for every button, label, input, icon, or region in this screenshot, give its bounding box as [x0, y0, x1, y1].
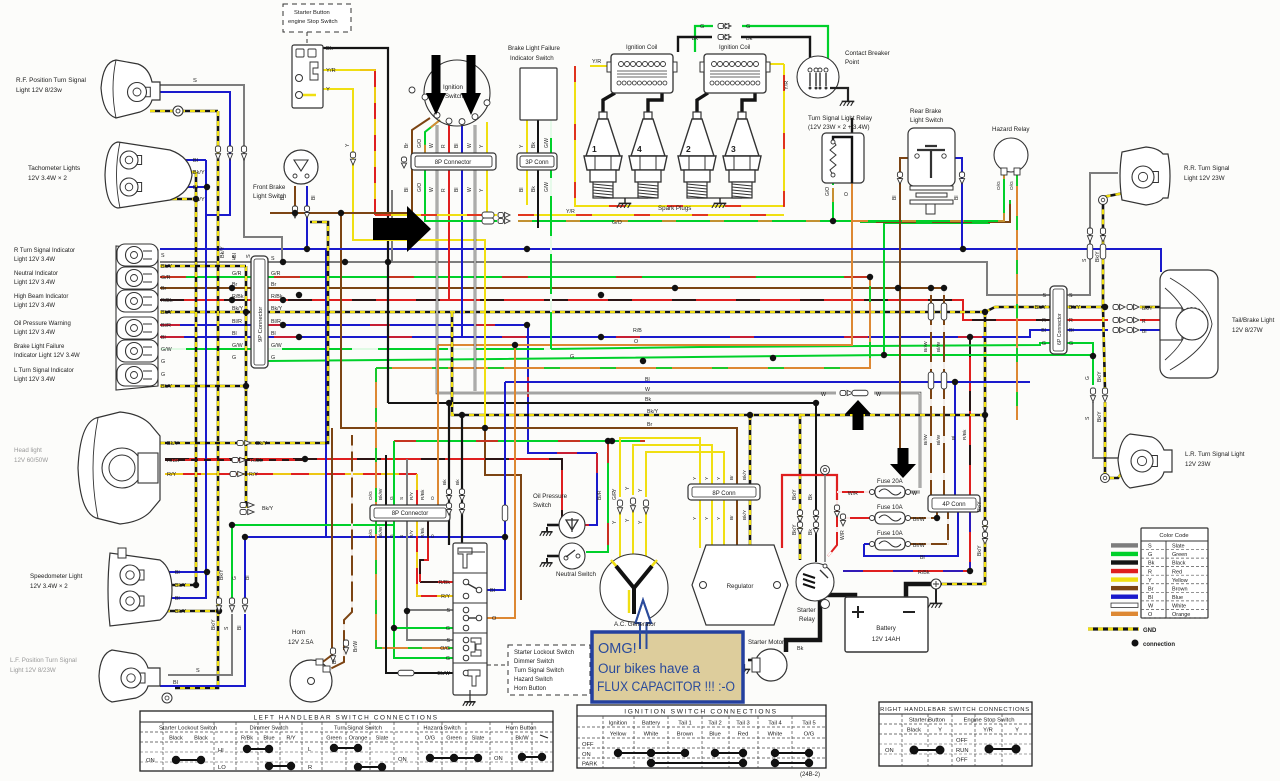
svg-text:LO: LO [218, 765, 226, 771]
svg-text:HI: HI [218, 748, 224, 754]
svg-text:Bk: Bk [808, 529, 814, 535]
svg-text:Red: Red [738, 732, 749, 738]
svg-text:G/O: G/O [612, 220, 622, 226]
svg-text:R/Y: R/Y [167, 472, 177, 478]
svg-text:L.R. Turn Signal Light: L.R. Turn Signal Light [1185, 451, 1245, 458]
svg-text:Starter Lockout Switch: Starter Lockout Switch [159, 726, 217, 732]
svg-text:G: G [446, 656, 450, 662]
svg-text:Bl: Bl [1041, 328, 1046, 334]
svg-text:Rear Brake: Rear Brake [910, 108, 942, 115]
svg-text:Br: Br [332, 659, 338, 664]
svg-text:Br/W: Br/W [913, 517, 925, 523]
svg-text:OFF: OFF [956, 758, 968, 764]
svg-text:Bl/R: Bl/R [271, 319, 281, 325]
svg-text:Br/W: Br/W [913, 543, 925, 549]
svg-text:Speedometer Light: Speedometer Light [30, 573, 83, 580]
svg-text:12V 8/27W: 12V 8/27W [1232, 327, 1263, 334]
svg-text:Bk: Bk [1148, 561, 1155, 567]
svg-text:Bl/R: Bl/R [232, 319, 242, 325]
svg-text:Bl: Bl [161, 335, 166, 341]
svg-text:Bk/Y: Bk/Y [232, 306, 244, 312]
svg-text:G/W: G/W [544, 182, 550, 192]
svg-text:G: G [446, 626, 450, 632]
svg-text:Brake Light Failure: Brake Light Failure [14, 344, 65, 350]
svg-text:Y/R: Y/R [784, 81, 790, 90]
svg-text:Bl/W: Bl/W [936, 434, 942, 445]
svg-text:Y/R: Y/R [566, 209, 575, 215]
svg-text:R/Bk: R/Bk [420, 489, 426, 500]
svg-text:Bl: Bl [232, 331, 237, 337]
svg-text:Tachometer Lights: Tachometer Lights [28, 165, 80, 172]
svg-text:Bk/Y: Bk/Y [647, 409, 659, 415]
svg-text:Dimmer Switch: Dimmer Switch [250, 726, 289, 732]
svg-text:Battery: Battery [876, 625, 897, 632]
svg-text:Bk/Y: Bk/Y [742, 469, 748, 480]
svg-text:Bk: Bk [455, 479, 461, 485]
svg-text:Contact Breaker: Contact Breaker [845, 50, 890, 57]
svg-text:connection: connection [1143, 642, 1175, 648]
svg-text:Head light: Head light [14, 447, 42, 454]
svg-text:Brown: Brown [677, 732, 693, 738]
svg-text:1: 1 [592, 144, 597, 154]
svg-text:Neutral Indicator: Neutral Indicator [14, 271, 58, 277]
svg-text:Bk: Bk [531, 142, 537, 148]
svg-text:G/W: G/W [161, 347, 172, 353]
svg-text:R/Y: R/Y [441, 594, 450, 600]
svg-text:RIGHT HANDLEBAR SWITCH CONNECT: RIGHT HANDLEBAR SWITCH CONNECTIONS [880, 707, 1030, 713]
svg-text:O/G: O/G [804, 732, 815, 738]
svg-text:Bk/Y: Bk/Y [193, 170, 205, 176]
svg-text:Bl: Bl [645, 377, 650, 383]
svg-text:8P Connector: 8P Connector [435, 160, 472, 166]
svg-text:Orange: Orange [1172, 612, 1190, 618]
svg-text:Indicator Light 12V 3.4W: Indicator Light 12V 3.4W [14, 353, 80, 359]
svg-text:High Beam Indicator: High Beam Indicator [14, 294, 68, 300]
svg-text:Green: Green [446, 736, 462, 742]
svg-text:12V 3.4W × 2: 12V 3.4W × 2 [28, 175, 67, 182]
svg-text:9P Connector: 9P Connector [258, 307, 264, 342]
svg-text:Y: Y [1015, 728, 1019, 734]
svg-text:Horn Button: Horn Button [514, 686, 546, 692]
svg-text:Dimmer Switch: Dimmer Switch [514, 659, 554, 665]
svg-text:R/Y: R/Y [409, 491, 415, 500]
svg-text:Br: Br [161, 286, 167, 292]
svg-text:Y/R: Y/R [983, 728, 993, 734]
svg-text:Brake Light Failure: Brake Light Failure [508, 45, 560, 52]
svg-text:O/G: O/G [996, 181, 1002, 190]
svg-text:OFF: OFF [582, 742, 594, 748]
svg-text:Bk/Y: Bk/Y [193, 197, 205, 203]
svg-text:Bl: Bl [175, 596, 180, 602]
svg-text:Bk: Bk [442, 479, 448, 485]
svg-text:Br/W: Br/W [923, 341, 929, 352]
svg-text:Turn Signal Light Relay: Turn Signal Light Relay [808, 115, 873, 122]
svg-text:W: W [912, 491, 917, 497]
svg-text:Bk/Y: Bk/Y [792, 524, 798, 535]
svg-text:Y/R: Y/R [326, 68, 336, 74]
svg-text:S: S [1069, 293, 1073, 299]
svg-text:R/Y: R/Y [409, 529, 415, 538]
svg-text:Yellow: Yellow [1172, 578, 1188, 584]
svg-text:W: W [1148, 603, 1154, 609]
svg-text:OMG!: OMG! [598, 641, 637, 657]
svg-text:Blue: Blue [709, 732, 721, 738]
svg-text:Y/R: Y/R [592, 59, 601, 65]
svg-text:Bl: Bl [311, 196, 317, 200]
svg-text:OFF: OFF [956, 738, 968, 744]
svg-text:R: R [308, 765, 312, 771]
svg-text:S: S [271, 256, 275, 262]
svg-text:Bl/R: Bl/R [161, 323, 171, 329]
svg-text:Bk: Bk [326, 46, 333, 52]
svg-text:Bk/Y: Bk/Y [262, 506, 274, 512]
svg-text:Blue: Blue [1172, 595, 1183, 601]
svg-text:Bk: Bk [797, 646, 804, 652]
svg-text:Brown: Brown [1172, 586, 1188, 592]
svg-text:Bl: Bl [173, 680, 178, 686]
svg-text:12V 2.5A: 12V 2.5A [288, 639, 314, 646]
svg-text:3P Conn: 3P Conn [525, 160, 548, 166]
svg-text:Color Code: Color Code [1159, 533, 1188, 539]
svg-text:12V 23W: 12V 23W [1185, 461, 1211, 468]
svg-text:Bk/Y: Bk/Y [792, 489, 798, 500]
svg-text:Starter Lockout Switch: Starter Lockout Switch [514, 650, 574, 656]
svg-text:Br: Br [280, 195, 286, 200]
svg-text:Br/W: Br/W [353, 641, 359, 652]
svg-text:Light 12V 3.4W: Light 12V 3.4W [14, 280, 55, 286]
svg-text:Bk/Y: Bk/Y [220, 246, 226, 258]
svg-text:Bk/Y: Bk/Y [1142, 306, 1153, 312]
svg-text:G/W: G/W [544, 138, 550, 148]
svg-text:G: G [1148, 552, 1152, 558]
svg-text:GND: GND [1143, 628, 1157, 634]
svg-text:S: S [161, 253, 165, 259]
svg-text:Y: Y [326, 87, 330, 93]
svg-text:S: S [399, 497, 405, 500]
svg-text:Starter Motor: Starter Motor [748, 639, 784, 646]
svg-text:Bk/Y: Bk/Y [211, 619, 217, 630]
svg-text:Tail 3: Tail 3 [736, 721, 750, 727]
svg-text:O/G: O/G [1009, 181, 1015, 190]
svg-text:Starter: Starter [797, 607, 816, 614]
svg-text:G/R: G/R [232, 271, 242, 277]
svg-text:Bk/Y: Bk/Y [175, 609, 187, 615]
svg-text:Bl: Bl [920, 555, 925, 561]
svg-text:FLUX CAPACITOR !!! :-O: FLUX CAPACITOR !!! :-O [597, 679, 735, 694]
svg-text:Engine Stop Switch: Engine Stop Switch [963, 718, 1014, 724]
svg-text:W: W [429, 143, 435, 148]
svg-text:3: 3 [731, 144, 736, 154]
svg-text:O: O [844, 192, 850, 196]
svg-text:O: O [1148, 612, 1153, 618]
svg-text:W/R: W/R [840, 530, 846, 540]
svg-text:R/Bk: R/Bk [161, 298, 173, 304]
svg-text:R/Bk: R/Bk [271, 294, 283, 300]
svg-text:Bl: Bl [237, 626, 243, 630]
svg-text:S: S [196, 668, 200, 674]
svg-text:R/Bk: R/Bk [241, 736, 253, 742]
svg-text:Br: Br [647, 422, 653, 428]
svg-text:Slate: Slate [472, 736, 485, 742]
svg-text:Bk/Y: Bk/Y [1097, 411, 1103, 422]
svg-text:Br: Br [729, 515, 735, 520]
svg-text:S: S [399, 535, 405, 538]
svg-text:Fuse 20A: Fuse 20A [877, 479, 903, 485]
svg-text:White: White [1172, 603, 1186, 609]
svg-text:Bk/Y: Bk/Y [1035, 305, 1047, 311]
svg-text:W: W [821, 392, 826, 398]
svg-text:Tail 5: Tail 5 [802, 721, 816, 727]
svg-text:W: W [429, 187, 435, 192]
svg-text:Hazard Relay: Hazard Relay [992, 126, 1030, 133]
svg-text:Light Switch: Light Switch [910, 117, 944, 124]
svg-text:Bl: Bl [175, 570, 180, 576]
svg-text:R Turn Signal Indicator: R Turn Signal Indicator [14, 248, 75, 254]
svg-text:Ignition Coil: Ignition Coil [719, 45, 750, 51]
svg-text:R/Bk: R/Bk [232, 294, 244, 300]
svg-text:Light 12V 8/23w: Light 12V 8/23w [16, 87, 62, 94]
svg-text:G/R: G/R [161, 275, 171, 281]
svg-text:Green: Green [1172, 552, 1187, 558]
svg-text:Bk/Y: Bk/Y [977, 545, 983, 556]
svg-text:Bl: Bl [193, 158, 198, 164]
svg-text:Indicator Switch: Indicator Switch [510, 55, 554, 62]
svg-text:Regulator: Regulator [727, 583, 754, 590]
svg-text:L Turn Signal Indicator: L Turn Signal Indicator [14, 368, 74, 374]
svg-text:O: O [634, 339, 638, 345]
svg-text:2: 2 [686, 144, 691, 154]
svg-text:Bl: Bl [1148, 595, 1153, 601]
svg-text:Bl/W: Bl/W [936, 341, 942, 352]
svg-text:Light 12V 3.4W: Light 12V 3.4W [14, 330, 55, 336]
svg-text:W/R: W/R [848, 491, 858, 497]
svg-text:LEFT HANDLEBAR SWITCH CONNECTI: LEFT HANDLEBAR SWITCH CONNECTIONS [253, 715, 438, 722]
svg-text:Black: Black [907, 728, 921, 734]
svg-text:W: W [876, 392, 881, 398]
svg-text:IGNITION SWITCH CONNECTIONS: IGNITION SWITCH CONNECTIONS [624, 709, 778, 716]
svg-text:6P Connector: 6P Connector [1057, 313, 1063, 345]
svg-text:O/G: O/G [368, 491, 374, 500]
svg-text:ON: ON [494, 756, 503, 762]
svg-text:Bk/W: Bk/W [378, 526, 384, 538]
svg-text:Bk: Bk [645, 397, 652, 403]
svg-text:R/Bk: R/Bk [918, 570, 930, 576]
svg-text:Tail 4: Tail 4 [768, 721, 782, 727]
svg-text:S: S [193, 78, 197, 84]
svg-text:R: R [441, 188, 447, 192]
svg-text:Fuse 10A: Fuse 10A [877, 531, 903, 537]
svg-text:Bl: Bl [1069, 328, 1074, 334]
svg-text:R: R [1148, 569, 1152, 575]
svg-text:(24B-2): (24B-2) [800, 772, 820, 778]
svg-text:O/G: O/G [425, 736, 435, 742]
svg-text:G/W: G/W [232, 343, 243, 349]
svg-text:Point: Point [845, 59, 859, 66]
svg-text:Bk/Y: Bk/Y [1097, 371, 1103, 382]
svg-text:G: G [161, 372, 165, 378]
svg-text:PARK: PARK [582, 762, 597, 768]
svg-text:(12V 23W × 2 + 3.4W): (12V 23W × 2 + 3.4W) [808, 124, 870, 131]
svg-text:Light 12V 3.4W: Light 12V 3.4W [14, 303, 55, 309]
svg-text:ON: ON [398, 757, 407, 763]
svg-text:4P Conn: 4P Conn [942, 502, 965, 508]
svg-text:Bk: Bk [808, 494, 814, 500]
svg-text:Hazard Switch: Hazard Switch [514, 677, 553, 683]
svg-text:G/R: G/R [271, 271, 281, 277]
svg-text:Bl: Bl [519, 188, 525, 192]
svg-text:Black: Black [169, 736, 183, 742]
svg-text:R/Bk: R/Bk [962, 429, 968, 440]
svg-text:Orange: Orange [349, 736, 368, 742]
svg-text:Hazard Switch: Hazard Switch [423, 726, 460, 732]
svg-text:S: S [232, 256, 236, 262]
svg-text:R/Bk: R/Bk [167, 458, 179, 464]
svg-text:R/Bk: R/Bk [251, 458, 263, 464]
svg-text:W: W [467, 143, 473, 148]
svg-text:G: G [271, 355, 275, 361]
svg-text:Light 12V 3.4W: Light 12V 3.4W [14, 377, 55, 383]
svg-text:8P Connector: 8P Connector [392, 511, 429, 517]
svg-text:Horn: Horn [292, 629, 306, 636]
svg-text:Bl: Bl [404, 188, 410, 192]
svg-text:G: G [389, 496, 395, 500]
svg-text:Black: Black [1172, 561, 1186, 567]
svg-text:Battery: Battery [642, 721, 660, 727]
svg-text:G: G [232, 355, 236, 361]
svg-text:Bl: Bl [454, 188, 460, 192]
svg-text:Oil Pressure Warning: Oil Pressure Warning [14, 321, 71, 327]
svg-text:S: S [246, 254, 252, 258]
svg-text:Br: Br [232, 282, 238, 288]
svg-text:G: G [746, 24, 750, 30]
svg-text:Relay: Relay [799, 616, 816, 623]
svg-text:Starter Button: Starter Button [294, 10, 330, 16]
svg-text:Front Brake: Front Brake [253, 184, 286, 191]
svg-text:4: 4 [637, 144, 642, 154]
svg-text:12V 3.4W × 2: 12V 3.4W × 2 [30, 583, 68, 590]
svg-text:Blue: Blue [263, 736, 274, 742]
svg-text:Bk/Y: Bk/Y [219, 569, 225, 580]
svg-text:Bk/Y: Bk/Y [161, 384, 173, 390]
svg-text:Switch: Switch [445, 93, 464, 100]
svg-text:Bk/Y: Bk/Y [977, 501, 983, 512]
svg-text:G/W: G/W [271, 343, 282, 349]
svg-text:Bk/Y: Bk/Y [175, 583, 187, 589]
svg-text:G: G [1042, 341, 1046, 347]
svg-text:Bk/Y: Bk/Y [256, 441, 268, 447]
svg-text:Bk/Y: Bk/Y [1095, 251, 1101, 262]
svg-text:Bk/Y: Bk/Y [1069, 305, 1081, 311]
svg-text:Bk/Y: Bk/Y [161, 310, 173, 316]
svg-text:R/Y: R/Y [286, 736, 296, 742]
svg-text:Slate: Slate [376, 736, 389, 742]
svg-text:Bk/Y: Bk/Y [167, 441, 179, 447]
svg-text:O/G: O/G [440, 646, 450, 652]
svg-text:O: O [430, 534, 436, 538]
svg-text:Bk/Y: Bk/Y [742, 509, 748, 520]
svg-text:White: White [768, 732, 783, 738]
svg-text:Spark Plugs: Spark Plugs [658, 205, 691, 212]
svg-text:Br: Br [1148, 586, 1154, 592]
svg-text:ON: ON [582, 752, 591, 758]
svg-text:R.F. Position Turn Signal: R.F. Position Turn Signal [16, 77, 86, 84]
svg-text:Tail 2: Tail 2 [708, 721, 722, 727]
svg-text:ON: ON [146, 758, 155, 764]
svg-text:R: R [1069, 318, 1073, 324]
svg-text:R: R [441, 144, 447, 148]
svg-text:Yellow: Yellow [610, 732, 627, 738]
svg-text:Y: Y [1148, 578, 1152, 584]
svg-text:W: W [645, 387, 650, 393]
svg-text:Light 12V 23W: Light 12V 23W [1184, 175, 1225, 182]
svg-text:RUN: RUN [956, 748, 969, 754]
svg-text:R/Bk: R/Bk [439, 580, 451, 586]
svg-text:Y: Y [938, 728, 942, 734]
svg-text:Light 12V 3.4W: Light 12V 3.4W [14, 257, 55, 263]
svg-text:Tail 1: Tail 1 [678, 721, 692, 727]
svg-text:Bl: Bl [951, 436, 957, 440]
svg-text:Bl: Bl [954, 196, 960, 200]
svg-text:Switch: Switch [533, 502, 552, 509]
svg-text:Bk: Bk [531, 186, 537, 192]
svg-text:Br: Br [404, 143, 410, 148]
svg-text:Bk/W: Bk/W [378, 488, 384, 500]
svg-text:Neutral Switch: Neutral Switch [556, 571, 596, 578]
svg-text:Black: Black [194, 736, 208, 742]
svg-text:Bl: Bl [454, 144, 460, 148]
svg-text:R.R. Turn Signal: R.R. Turn Signal [1184, 165, 1229, 172]
svg-text:Our bikes have a: Our bikes have a [598, 661, 701, 676]
svg-text:Turn Signal Switch: Turn Signal Switch [514, 668, 564, 674]
svg-text:12V 14AH: 12V 14AH [872, 636, 900, 643]
svg-text:G: G [232, 576, 238, 580]
svg-text:ON: ON [885, 748, 894, 754]
svg-text:engine Stop Switch: engine Stop Switch [288, 19, 338, 25]
svg-text:G: G [1069, 341, 1073, 347]
svg-text:S: S [1148, 544, 1152, 550]
svg-text:G/O: G/O [825, 187, 831, 196]
svg-text:Starter Button: Starter Button [909, 718, 945, 724]
svg-text:R/Y: R/Y [249, 472, 258, 478]
svg-text:L.F. Position Turn Signal: L.F. Position Turn Signal [10, 657, 77, 664]
svg-text:Oil Pressure: Oil Pressure [533, 493, 568, 500]
svg-text:Ignition Coil: Ignition Coil [626, 45, 657, 51]
svg-text:Bl: Bl [245, 576, 251, 580]
svg-text:12V 60/50W: 12V 60/50W [14, 457, 48, 464]
svg-text:Horn Button: Horn Button [506, 726, 537, 732]
svg-text:W: W [467, 187, 473, 192]
svg-text:O: O [430, 496, 436, 500]
svg-text:8P Conn: 8P Conn [712, 491, 735, 497]
svg-text:G: G [389, 534, 395, 538]
svg-text:Tail/Brake Light: Tail/Brake Light [1232, 317, 1275, 324]
svg-text:R: R [1142, 319, 1146, 325]
svg-text:Bl: Bl [1142, 329, 1146, 335]
svg-text:Ignition: Ignition [609, 721, 628, 727]
svg-text:White: White [644, 732, 659, 738]
svg-text:Red: Red [1172, 569, 1182, 575]
svg-text:R/Bk: R/Bk [420, 527, 426, 538]
svg-text:Turn Signal Switch: Turn Signal Switch [334, 726, 382, 732]
svg-text:Bk: Bk [746, 36, 753, 42]
svg-text:G/O: G/O [417, 139, 423, 148]
svg-text:Slate: Slate [1172, 544, 1185, 550]
svg-text:Bl: Bl [271, 331, 276, 337]
svg-text:O: O [492, 616, 497, 622]
svg-text:O/G: O/G [368, 529, 374, 538]
svg-text:Fuse 10A: Fuse 10A [877, 505, 903, 511]
svg-text:G: G [700, 24, 704, 30]
